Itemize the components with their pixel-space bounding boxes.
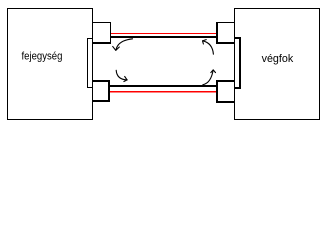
twist arrow bottom-right [203,70,216,85]
wire red bottom [110,91,216,92]
twist arrow bottom-left [116,70,127,81]
channel right (bus between connectors) [234,37,241,89]
svg-text:fejegység: fejegység [22,51,63,63]
wire red top [111,33,216,34]
connector bottom-right [216,80,235,103]
channel left (bus between connectors) [87,38,93,88]
twist arrow top-left [113,39,133,51]
connector bottom-left [92,80,110,102]
wire black bottom [110,85,216,87]
connector top-left [92,22,111,44]
connector top-right [216,22,235,44]
svg-text:végfok: végfok [262,53,294,65]
twist arrow top-right [203,40,214,55]
box fejegység (head unit) [7,8,93,120]
wire black top [111,36,216,38]
box végfok (power amp) [234,8,320,120]
